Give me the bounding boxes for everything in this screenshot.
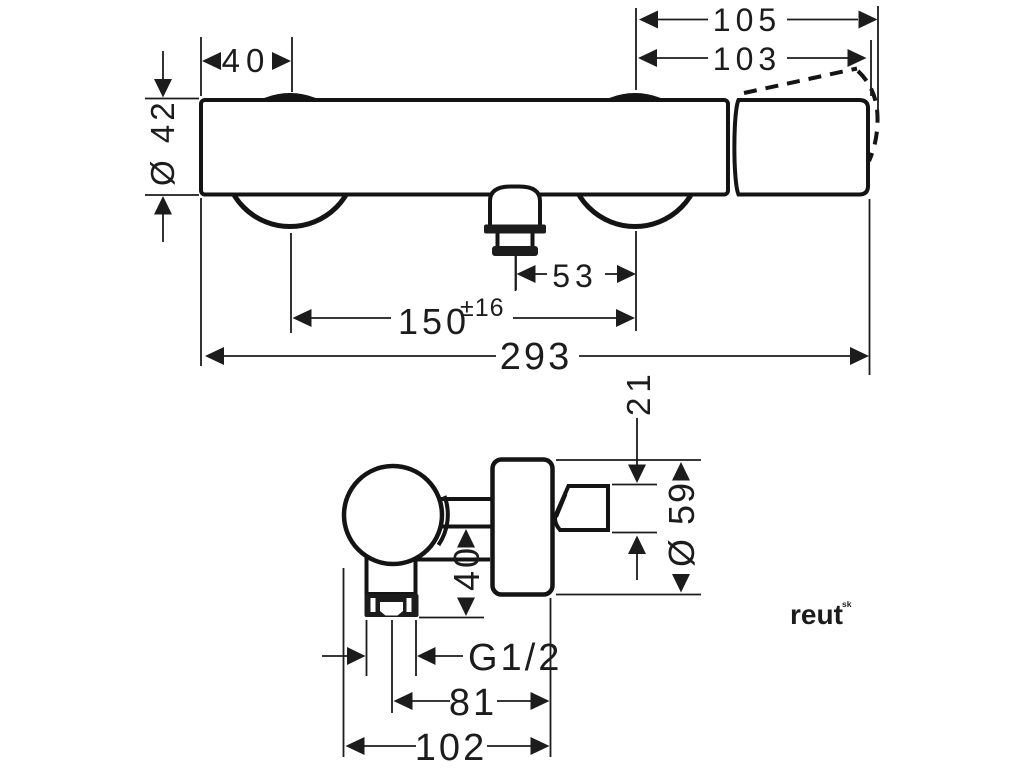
dimension 105 line and arrows [658,19,858,21]
side view: control knob circle [344,466,442,564]
plate bottom extension line [556,594,701,596]
dimension 81 arrows [394,692,413,710]
svg-text:102: 102 [415,727,487,768]
dashed swung position line [744,69,857,94]
G1/2 extension lines [367,620,417,676]
svg-text:40: 40 [222,42,271,79]
dimension 21 arrows [636,418,638,465]
outlet neck wall right [531,234,535,249]
svg-text:53: 53 [552,258,598,294]
svg-text:reut: reut [790,599,843,630]
svg-text:40: 40 [446,545,487,591]
side view: hose nut slot left [371,598,376,612]
extension line knob left [343,568,345,757]
dimension Ø42 extension lines [145,99,199,196]
side view: wall connector [555,486,608,530]
side view: knob grip outer arc [439,496,448,545]
svg-text:±16: ±16 [460,294,505,322]
mixer bar body (front view) [201,100,728,195]
svg-text:293: 293 [500,336,572,378]
dimension 102 arrows [346,737,365,755]
plate top extension line [556,459,701,461]
side view: valve body under knob [367,540,416,594]
outlet neck wall left [496,234,500,249]
dimension 150 line and arrows [293,309,312,327]
svg-text:sk: sk [842,599,852,609]
dimension 53 line and arrows [517,265,536,283]
svg-text:103: 103 [713,41,781,77]
side view: body-to-plate boss bottom edge [417,558,490,562]
extension line wall face [550,598,552,757]
side view: hose nut thread window [380,602,403,616]
dimension 293 line and arrows [205,347,224,365]
svg-text:G1/2: G1/2 [468,637,562,679]
outlet dome (shower hose connection, front view) [490,187,540,229]
escutcheon circle left (wall mount, front view) [225,96,356,227]
escutcheon circle right (wall mount, front view) [570,96,701,227]
connector bottom extension line [612,532,657,534]
outlet cap nut [492,246,538,256]
outlet centreline [515,256,517,291]
dimension Ø59 arrows [672,462,690,481]
side view: hose nut block [365,594,419,617]
dimension 40 extension lines (top) [201,37,292,96]
dimension Ø42 arrows [162,51,164,79]
nut bottom extension line [419,617,484,619]
svg-text:Ø 59: Ø 59 [661,481,702,567]
outlet flange [484,225,546,234]
svg-text:Ø 42: Ø 42 [144,98,181,186]
connector top extension line [612,484,657,486]
side view: hose nut slot right [407,598,412,612]
dimension 53 extension lines [516,231,636,331]
extension line nut centre [391,620,393,713]
dimension 103 extension line [870,40,872,96]
escutcheon top lens right [611,94,659,102]
dashed swing arc [858,71,878,161]
svg-text:81: 81 [449,682,497,724]
pivoting right section of bar [734,100,868,195]
svg-text:21: 21 [620,369,657,416]
dimension 40 arrows (top) [202,52,221,70]
dimension 150 extension line [290,233,292,333]
G1/2 dimension arrows [322,655,347,657]
side view: wall connector inner edge [557,494,567,517]
dimension 105 extension lines [636,6,878,122]
dimension 103 line and arrows [657,57,848,59]
side view: wall plate (escutcheon profile) [493,460,553,595]
svg-text:105: 105 [713,2,781,38]
dimension 293 extension lines [201,198,870,375]
side view: supply pipe [436,499,492,527]
escutcheon top lens left [266,94,314,102]
dimension 40 arrows (side) [457,529,475,548]
